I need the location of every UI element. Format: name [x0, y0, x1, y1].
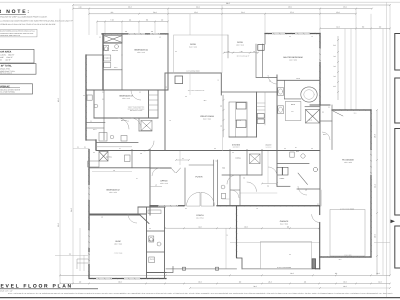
ext great room right [222, 95, 224, 151]
ext hall mud [267, 151, 269, 184]
window shop south b [124, 278, 140, 280]
dim line bottom row 1 [60, 274, 390, 276]
svg-text:5-8: 5-8 [113, 170, 115, 172]
wall bath mid [284, 98, 301, 100]
hall door arc 3 [247, 182, 257, 192]
svg-text:19-0: 19-0 [288, 6, 291, 9]
wall front south east part [217, 205, 319, 207]
dim extension rv left [344, 29, 346, 111]
butler box b [257, 119, 264, 124]
svg-text:12-0 SLIDING DOOR: 12-0 SLIDING DOOR [186, 70, 199, 72]
garage west step [237, 258, 243, 269]
svg-text:8-4: 8-4 [295, 147, 297, 149]
hall door arc 4 [227, 175, 236, 184]
wall closet bottom [103, 69, 122, 71]
wall RV garage south [320, 256, 371, 258]
svg-text:4-0: 4-0 [256, 208, 258, 210]
window bedroom4 north a [128, 33, 145, 35]
svg-text:BEDROOM #3: BEDROOM #3 [119, 95, 133, 98]
dim garage north [240, 192, 277, 194]
bath2 toilet [125, 155, 131, 162]
wall wc right [283, 80, 285, 99]
wall shower bottom [103, 42, 122, 44]
patio sliding door wall [165, 72, 221, 74]
svg-text:6-4: 6-4 [221, 125, 223, 127]
porch south slab edge [166, 268, 237, 270]
svg-text:5-6: 5-6 [232, 152, 234, 154]
dim line bottom row 3 [190, 287, 390, 289]
linen shelf [104, 55, 111, 61]
bath2 tub [88, 161, 99, 167]
great room fireplace [175, 76, 183, 84]
door arc garage-rv [312, 215, 320, 223]
wall west jog [95, 140, 97, 150]
ext garage/rv gap [321, 190, 323, 206]
wall RV garage east [370, 110, 372, 257]
svg-text:2-8: 2-8 [140, 153, 142, 155]
wall mud divider 1 [147, 230, 165, 232]
svg-text:12-0: 12-0 [339, 259, 342, 261]
door arc bed3 [131, 118, 141, 128]
svg-text:LIN: LIN [106, 58, 108, 60]
svg-text:2-0: 2-0 [328, 107, 330, 109]
wall bedroom3 bottom [94, 117, 158, 119]
svg-text:4-0: 4-0 [169, 120, 171, 122]
svg-text:MECH: MECH [150, 259, 154, 261]
dryer [283, 167, 288, 175]
wall bath3 bottom [86, 139, 96, 141]
svg-text:2-6: 2-6 [90, 121, 92, 123]
wall bath3 south [96, 142, 138, 144]
svg-text:2-10: 2-10 [227, 51, 230, 53]
svg-text:EVEL FLOOR PLAN: EVEL FLOOR PLAN [1, 283, 73, 289]
svg-text:INTERIOR WALLS SHALL BE 2X4 ST: INTERIOR WALLS SHALL BE 2X4 STUDS AT 16 … [0, 23, 56, 26]
dim powder [222, 198, 230, 200]
svg-text:PATIO: PATIO [237, 41, 243, 44]
svg-text:4 SF TOTAL: 4 SF TOTAL [0, 65, 13, 68]
kitchen fridge [236, 103, 246, 110]
wall laundry south a [277, 185, 290, 187]
dim extension master right [350, 29, 352, 111]
bath2 shower X [99, 152, 108, 162]
shelf column edge [264, 92, 266, 125]
wall closet right [261, 150, 263, 176]
dim hall mud [262, 183, 277, 185]
svg-text:3-6: 3-6 [185, 208, 187, 210]
wall bath exterior left [85, 55, 87, 140]
wall garage east upper [319, 206, 321, 215]
svg-text:84-0: 84-0 [226, 2, 230, 5]
window master north a [272, 33, 285, 35]
wall sitting closet a [255, 44, 257, 77]
wall master bath south [310, 104, 330, 106]
wall bedroom3 right [148, 90, 150, 118]
wall garage south stub [316, 268, 320, 270]
door arc rv wic [322, 132, 330, 140]
door arc shop [128, 214, 137, 223]
svg-text:4-6: 4-6 [226, 235, 228, 237]
kitchen counter [229, 102, 247, 137]
wall bedroom4 top exterior [102, 33, 168, 35]
master shower X [306, 110, 320, 124]
dim line lower right a [230, 242, 320, 244]
svg-text:4-6: 4-6 [311, 36, 313, 38]
svg-text:9-0: 9-0 [317, 203, 319, 205]
mech unit [149, 257, 155, 263]
svg-text:VERIFY TRUSS DIRECTION: VERIFY TRUSS DIRECTION [128, 107, 144, 109]
svg-text:5-4: 5-4 [119, 148, 121, 150]
porch column a [183, 267, 186, 270]
door arc office2 [152, 168, 160, 176]
wall bedroom4 right [167, 34, 169, 90]
bath4 toilet [104, 45, 109, 50]
extension bottom left 2 [83, 255, 85, 271]
porch column b [216, 267, 219, 270]
wall bedroom3 left jog [93, 90, 95, 118]
svg-text:10-0: 10-0 [374, 234, 377, 238]
dim line top right row [320, 28, 390, 30]
dim line top row 2 [73, 8, 372, 10]
svg-text:12-0: 12-0 [194, 11, 197, 14]
linen chase column [157, 90, 159, 118]
wall dining bottom [222, 174, 262, 176]
svg-text:5-0: 5-0 [159, 37, 161, 39]
wall WIC east [331, 105, 333, 150]
dining closet X [250, 154, 261, 164]
svg-text:14-4: 14-4 [374, 184, 377, 188]
ext slider a [189, 73, 191, 95]
patio west edge line [173, 35, 175, 73]
office double door [171, 168, 181, 173]
dim left small row [73, 148, 89, 150]
svg-text:BATH #5: BATH #5 [149, 240, 155, 242]
angled wall bed2 corner [140, 215, 149, 224]
window office south [158, 205, 178, 207]
wall great room east [220, 73, 222, 95]
svg-text:6-8: 6-8 [267, 186, 269, 188]
window shop west a [88, 230, 90, 248]
dim line right of RV garage [376, 110, 378, 275]
wall bed2/office divider [149, 150, 151, 216]
window master east [319, 48, 321, 62]
svg-text:LNDRY: LNDRY [280, 178, 285, 180]
svg-text:22-0: 22-0 [57, 223, 60, 227]
dim line porch top [165, 227, 320, 229]
wall bedroom4 left exterior [102, 34, 104, 90]
svg-text:3-0: 3-0 [155, 185, 157, 187]
wall bedroom2 top [89, 167, 150, 169]
mud basin circle [301, 154, 305, 158]
bath5 toilet [149, 236, 154, 242]
extension line far left [72, 5, 74, 284]
svg-text:5-0: 5-0 [83, 95, 85, 97]
window bedroom2 west [88, 185, 90, 200]
svg-text:12-0 X 14-0 OH DOOR: 12-0 X 14-0 OH DOOR [340, 208, 354, 210]
svg-text:3-0: 3-0 [93, 152, 95, 154]
svg-text:W.I.C.: W.I.C. [323, 134, 327, 136]
mud column south wall [147, 272, 167, 274]
dim line lower right b [374, 242, 390, 244]
svg-text:16-0: 16-0 [343, 6, 346, 9]
hall door arc 2 [144, 141, 154, 151]
utility sink [313, 167, 317, 171]
svg-text:6-0: 6-0 [185, 96, 187, 98]
svg-text:21-0: 21-0 [241, 11, 244, 14]
window shop south [96, 278, 112, 280]
svg-text:W.I.C.: W.I.C. [309, 119, 313, 121]
wall foyer top [189, 164, 213, 166]
svg-text:24-0: 24-0 [153, 11, 156, 14]
mud column steps [166, 267, 173, 273]
svg-text:3-8: 3-8 [269, 81, 271, 83]
svg-text:FOYER: FOYER [196, 176, 203, 179]
door arc master [268, 75, 277, 84]
svg-text:ALL WINDOW AND DOOR HEADERS TO: ALL WINDOW AND DOOR HEADERS TO BE SIZED … [0, 19, 73, 22]
wall sitting left [264, 34, 266, 45]
shower bed4 X-box [104, 36, 122, 43]
svg-text:8-0: 8-0 [221, 105, 223, 107]
door arc bed4 [131, 90, 141, 100]
svg-text:2-8: 2-8 [165, 87, 167, 89]
master tub [301, 87, 317, 102]
svg-text:10-0 CLG: 10-0 CLG [235, 120, 241, 122]
wic shelf [104, 63, 111, 68]
wall bath2 right [131, 150, 133, 168]
wall mud divider 2 [147, 251, 165, 253]
svg-text:6-0: 6-0 [127, 121, 129, 123]
svg-text:OFFICE: OFFICE [160, 180, 168, 183]
dim office side [150, 186, 162, 188]
svg-text:3-0: 3-0 [99, 37, 101, 39]
bath3 sink circle [110, 135, 114, 139]
bath4 sink [115, 45, 119, 49]
exterior steps bottom left [77, 258, 89, 260]
svg-text:2-4: 2-4 [136, 178, 138, 180]
wall kitchen north [221, 91, 277, 93]
wall powder right [229, 150, 231, 206]
wall mud top [138, 206, 165, 208]
dim chain master wall [337, 36, 339, 100]
door arc mud [268, 167, 277, 176]
butler box a [257, 114, 264, 119]
wall office top [150, 167, 171, 169]
svg-text:19-6: 19-6 [204, 100, 207, 102]
kitchen range [236, 120, 246, 128]
garage door jamb [312, 259, 316, 269]
wall front south west part [150, 205, 184, 207]
wall shower top [305, 106, 320, 108]
wall shop/mud joint [137, 207, 139, 214]
extension lines top [88, 9, 90, 35]
wall east interior [319, 105, 321, 206]
wall nook top [256, 77, 277, 79]
wall closet hall left [138, 118, 140, 131]
svg-text:4-6: 4-6 [215, 161, 217, 163]
RV entry diagonal door [333, 111, 343, 116]
wall master east exterior [319, 34, 321, 106]
master fireplace [258, 45, 264, 51]
patio north open edge [174, 34, 228, 36]
svg-text:2-8: 2-8 [101, 217, 103, 219]
svg-text:12-0 X 8-0 SLIDING DOOR: 12-0 X 8-0 SLIDING DOOR [188, 90, 204, 92]
svg-text:PATIO: PATIO [190, 43, 196, 46]
wall wic divider [121, 55, 123, 90]
wall west exterior [88, 150, 90, 279]
dim line top row 4 [97, 21, 168, 23]
wall closet hall bottom [139, 130, 152, 132]
svg-text:SEE STRUCT PLANS: SEE STRUCT PLANS [130, 110, 143, 112]
svg-text:ER NOTE:: ER NOTE: [0, 9, 31, 15]
dim line small left [55, 255, 89, 257]
ext foyer a [179, 151, 181, 165]
svg-text:W.I.C.: W.I.C. [93, 129, 97, 131]
mud sink box [290, 152, 294, 157]
svg-text:5-0 X 6-0: 5-0 X 6-0 [266, 146, 272, 148]
svg-text:4 CONC SLAB: 4 CONC SLAB [114, 252, 123, 254]
wall bath4 jog top [86, 54, 103, 56]
hall closet X [141, 121, 152, 131]
svg-text:3-0: 3-0 [139, 92, 141, 94]
wall laundry north [277, 163, 309, 165]
bath3 toilet2 [121, 136, 127, 142]
svg-text:44-0: 44-0 [196, 6, 199, 9]
sheet margin line right [386, 2, 388, 297]
wall laundry south b [297, 188, 320, 190]
right margin detail box 3 [395, 129, 400, 216]
floor area table box [0, 49, 34, 63]
svg-text:8-0: 8-0 [322, 112, 324, 114]
svg-text:8-0: 8-0 [111, 11, 114, 14]
garage door sill [242, 268, 312, 270]
wall sitting closet b [262, 44, 264, 77]
washer [277, 167, 282, 175]
svg-text:5-0: 5-0 [243, 178, 245, 180]
wall closet left [246, 150, 248, 176]
dim line top row 3 left [89, 13, 222, 15]
laundry diagonal door [298, 173, 308, 185]
window bedroom4 north b [150, 33, 160, 35]
svg-text:24-0: 24-0 [70, 208, 73, 212]
svg-text:16-10: 16-10 [296, 78, 300, 80]
window shop west b [88, 252, 90, 264]
svg-text:SHOP: SHOP [115, 240, 121, 243]
svg-text:62-0: 62-0 [57, 98, 60, 102]
svg-text:27-6: 27-6 [290, 11, 293, 14]
window master north b [295, 33, 310, 35]
svg-text:14-0 X 12-0: 14-0 X 12-0 [344, 254, 351, 256]
RV door outline [330, 210, 365, 257]
window rv east a [370, 150, 372, 175]
svg-text:MASTER BEDROOM: MASTER BEDROOM [283, 56, 303, 59]
wall bath3 upper [86, 121, 105, 123]
svg-text:BEDROOM #2: BEDROOM #2 [106, 189, 120, 192]
svg-text:BATH #2: BATH #2 [106, 156, 112, 158]
wall master south [277, 79, 320, 81]
vanity room [285, 102, 301, 121]
legend box [0, 84, 33, 94]
dim bath2 top [96, 146, 132, 148]
wall powder left [217, 160, 219, 206]
counter divide [235, 102, 237, 137]
wall bedroom2 bottom [89, 214, 140, 216]
wall shop top [89, 213, 146, 215]
wall mud column right [164, 207, 166, 279]
wall mud column left [146, 207, 148, 279]
garage door outline [261, 242, 312, 269]
bath3 toilet [87, 95, 92, 100]
dim master sitting [224, 52, 258, 54]
svg-text:7-10: 7-10 [240, 51, 243, 53]
svg-text:6-0: 6-0 [149, 228, 151, 230]
sheet border bottom [0, 297, 400, 299]
svg-text:24-6: 24-6 [128, 6, 131, 9]
porch dim small [225, 228, 227, 269]
wall great room west [164, 73, 166, 150]
svg-text:2-6: 2-6 [284, 148, 286, 150]
dim line bottom row 2 [60, 283, 390, 285]
boxed note [0, 29, 37, 37]
svg-text:NTRACTOR TO VERIFY ALL DIMENSI: NTRACTOR TO VERIFY ALL DIMENSIONS PRIOR … [0, 16, 48, 19]
right margin detail box 1 [395, 34, 400, 71]
dim line top row 3 right [222, 13, 356, 15]
svg-text:16-0 X 8-0 OH DOOR: 16-0 X 8-0 OH DOOR [277, 267, 291, 269]
svg-text:16-8: 16-8 [374, 134, 377, 138]
svg-text:RV GARAGE: RV GARAGE [342, 159, 355, 162]
svg-text:2-8: 2-8 [253, 51, 255, 53]
svg-text:2-0: 2-0 [77, 147, 79, 149]
wall bath3 divider [103, 90, 105, 140]
bath3 sink [94, 104, 98, 108]
svg-text:5-4: 5-4 [182, 158, 184, 160]
right margin detail box 2 [395, 78, 400, 123]
svg-text:5-0: 5-0 [84, 147, 86, 149]
svg-text:4-0: 4-0 [217, 80, 219, 82]
svg-text:GREAT ROOM: GREAT ROOM [200, 115, 214, 118]
hall door arc 1 [118, 118, 129, 129]
svg-text:W/ MANUF PRIOR TO BUILD: W/ MANUF PRIOR TO BUILD [128, 108, 145, 110]
svg-text:GARAGE: GARAGE [280, 220, 289, 223]
dim extension right outer [382, 29, 384, 276]
mud bench [148, 210, 161, 214]
dim line overall top [73, 4, 390, 6]
svg-text:3-0: 3-0 [214, 148, 216, 150]
wall office right [184, 168, 186, 206]
wall shop/mud south exterior [90, 278, 166, 280]
svg-text:BEDROOM #4: BEDROOM #4 [134, 49, 148, 52]
wall bath4 divider [121, 34, 123, 55]
sheet border top [0, 1, 400, 3]
svg-text:PDR: PDR [222, 168, 225, 170]
svg-text:KITCHEN: KITCHEN [232, 144, 241, 147]
svg-text:MUD: MUD [296, 151, 299, 153]
svg-text:PORCH: PORCH [196, 214, 204, 217]
svg-text:W.I.C.: W.I.C. [114, 67, 118, 69]
wall WIC top [320, 120, 332, 122]
svg-text:5-0: 5-0 [311, 148, 313, 150]
wall garage east lower [319, 223, 321, 269]
powder sink [221, 185, 225, 189]
powder toilet [221, 194, 225, 199]
wall kitchen east [256, 92, 258, 137]
wall master north exterior [265, 33, 320, 35]
svg-text:10-0: 10-0 [354, 113, 357, 115]
svg-text:3-6: 3-6 [305, 190, 307, 192]
wall counter south [229, 136, 257, 138]
wall garage west [236, 206, 238, 258]
hatch bedroom4 top wall [85, 33, 372, 280]
svg-text:12-0: 12-0 [336, 11, 339, 14]
svg-text:6-0: 6-0 [289, 36, 291, 38]
